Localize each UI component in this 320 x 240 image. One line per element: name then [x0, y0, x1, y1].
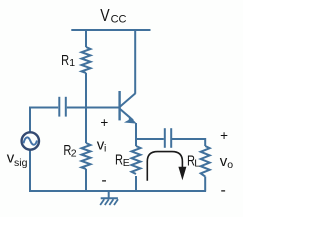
wire R1 top (VCC to R1): [85, 29, 87, 47]
svg-text:R: R: [61, 52, 69, 69]
capacitor C2 right plate: [170, 128, 172, 148]
source vsig sine wave: [24, 137, 38, 144]
svg-text:o: o: [227, 159, 233, 171]
resistor RL: [201, 146, 210, 177]
wire collector: [134, 29, 136, 94]
wire input top (left corner to C1): [30, 108, 58, 133]
svg-text:i: i: [104, 142, 106, 154]
transistor Q1 emitter arrowhead: [124, 116, 137, 124]
wire RE top: [135, 139, 137, 146]
transistor Q1 base bar: [118, 91, 120, 120]
wire C2 to RL: [172, 139, 205, 146]
resistor R1: [82, 47, 91, 73]
svg-text:1: 1: [69, 57, 75, 69]
svg-text:L: L: [194, 158, 200, 170]
svg-text:-: -: [101, 172, 106, 189]
svg-text:2: 2: [71, 147, 77, 159]
svg-text:E: E: [123, 157, 130, 169]
svg-text:+: +: [100, 115, 108, 130]
wire vsig to ground rail: [29, 150, 31, 191]
wire RE bottom: [135, 176, 137, 191]
resistor R2: [82, 143, 91, 169]
wire C1 to base: [67, 107, 119, 109]
wire RL bottom: [204, 177, 206, 192]
transistor Q1 collector lead: [120, 93, 136, 107]
wire R1 bottom to base node: [85, 73, 87, 108]
svg-text:+: +: [220, 128, 228, 143]
svg-text:-: -: [221, 182, 226, 199]
capacitor C1 right plate: [65, 97, 67, 117]
wire emitter node to C2: [136, 138, 164, 140]
wire base node to R2: [85, 108, 87, 144]
current loop arrow: [147, 152, 182, 181]
ground symbol: [100, 191, 118, 205]
capacitor C2 left plate: [164, 128, 166, 148]
source vsig circle: [22, 132, 39, 149]
wire VCC rail: [71, 29, 150, 31]
current loop arrowhead: [178, 167, 186, 180]
svg-text:sig: sig: [14, 157, 28, 169]
wire ground rail: [29, 190, 206, 192]
transistor Q1 emitter lead: [120, 109, 133, 121]
svg-text:CC: CC: [111, 13, 127, 25]
wire emitter down: [135, 123, 137, 139]
svg-text:V: V: [100, 5, 110, 25]
capacitor C1 left plate: [58, 97, 60, 117]
wire R2 bottom to ground rail: [85, 169, 87, 191]
resistor RE: [132, 146, 141, 174]
